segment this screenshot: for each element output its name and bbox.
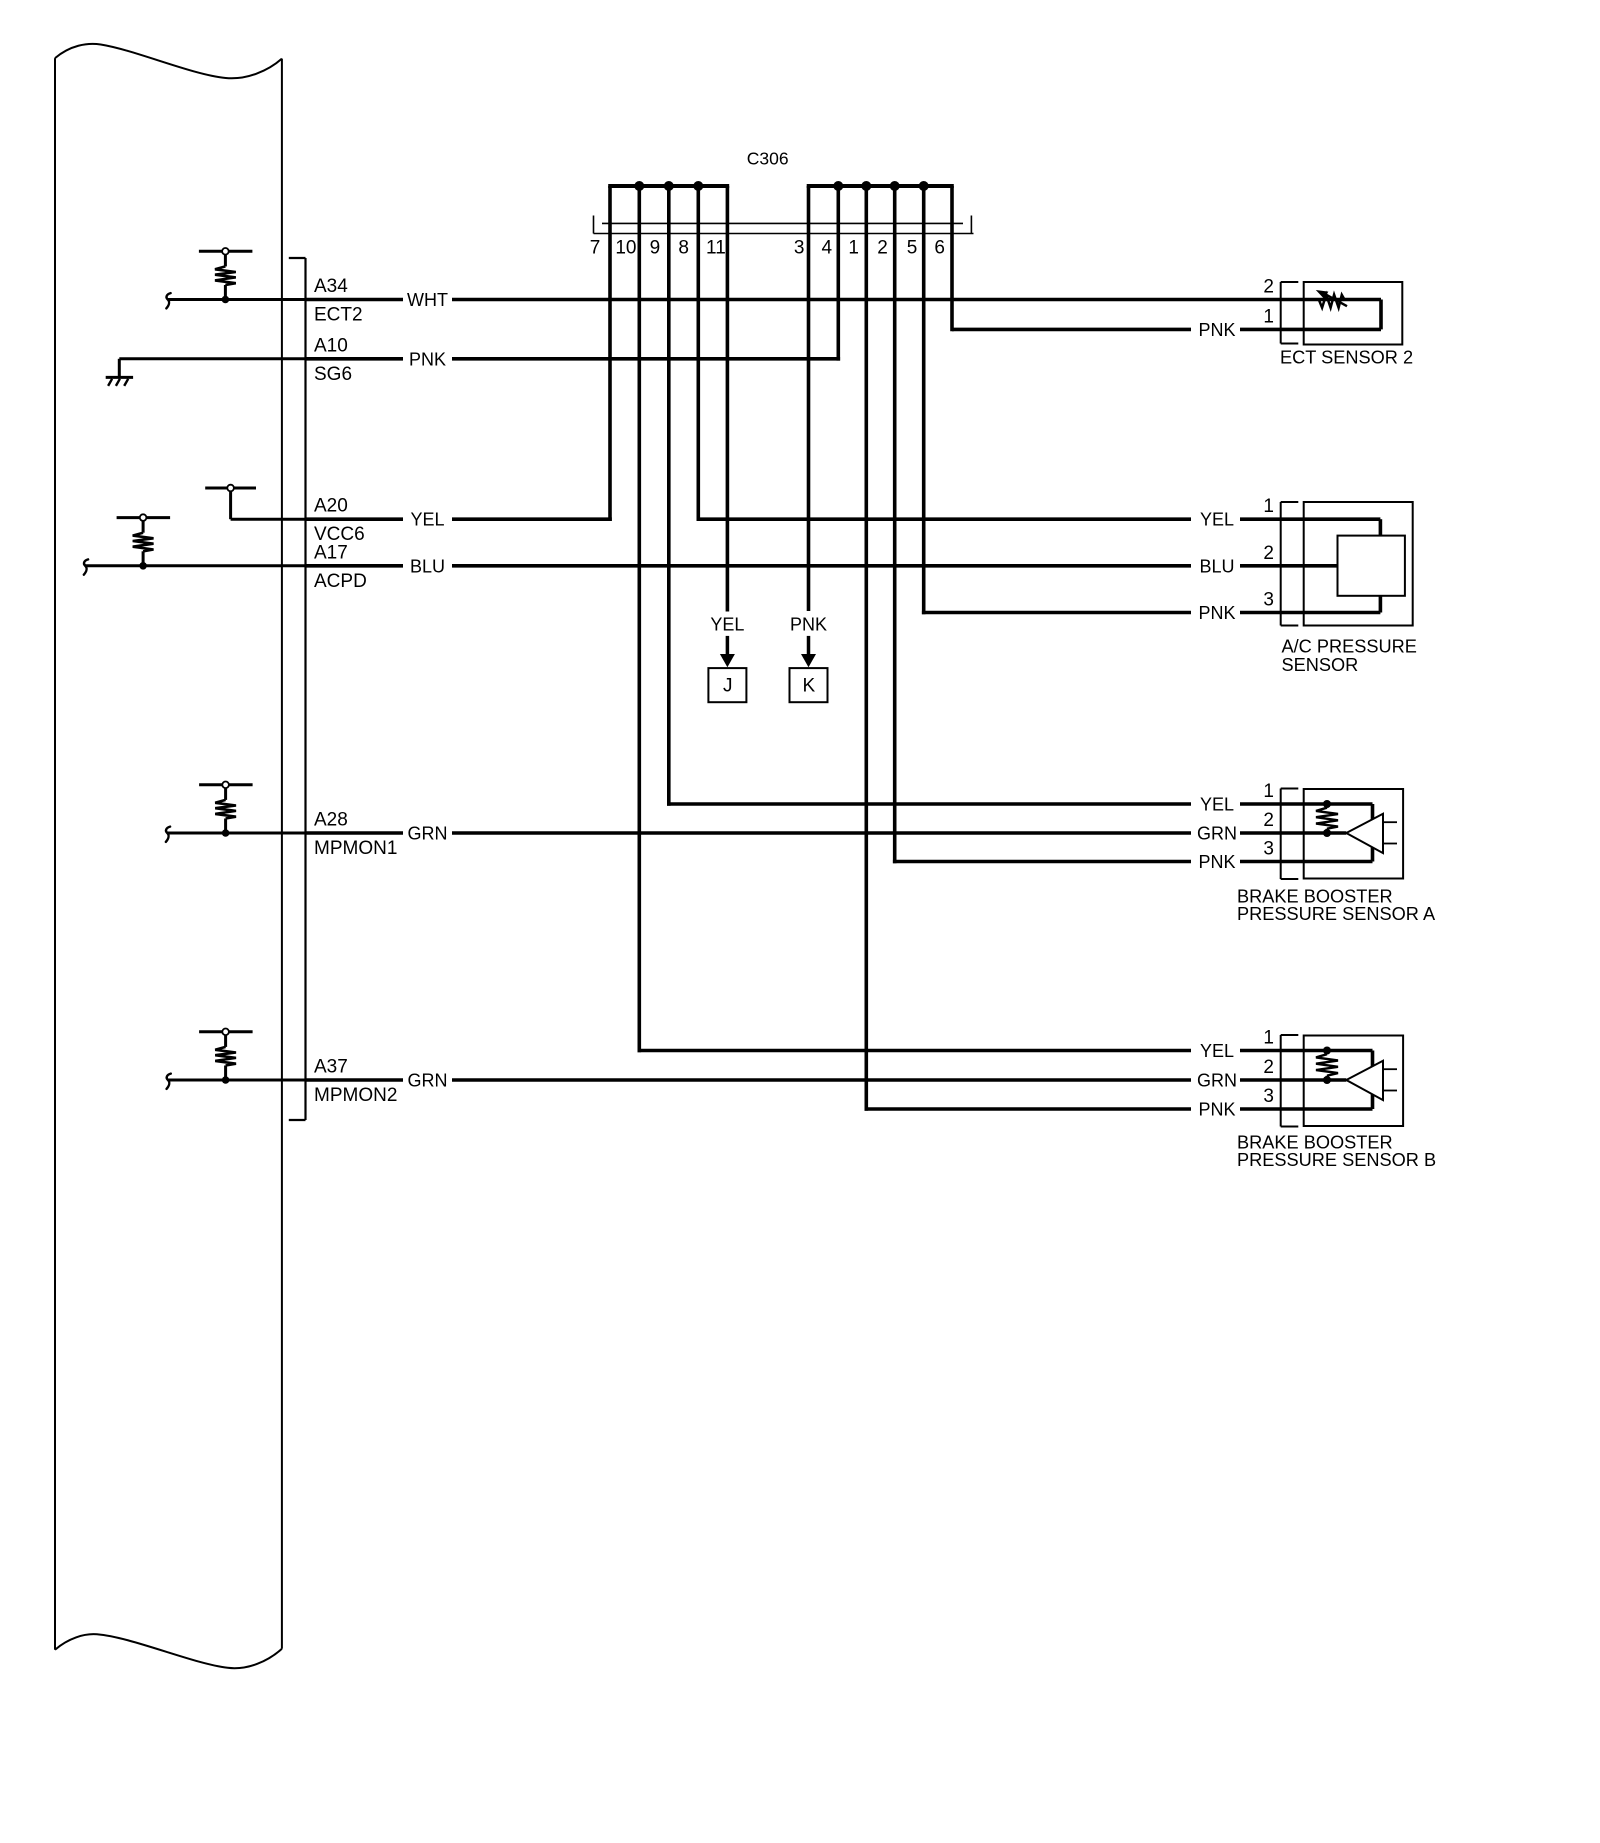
svg-text:BLU: BLU [1199, 556, 1234, 576]
svg-text:K: K [802, 676, 815, 697]
brake booster pressure sensor A box [1304, 789, 1403, 879]
junction dot (sensor A pin2) [1323, 829, 1331, 837]
svg-text:11: 11 [706, 238, 726, 259]
svg-text:YEL: YEL [1200, 795, 1234, 815]
svg-text:PRESSURE SENSOR B: PRESSURE SENSOR B [1237, 1150, 1436, 1170]
svg-text:2: 2 [1263, 1057, 1274, 1078]
resistor (A28 MPMON1 pull-up) [199, 782, 253, 837]
svg-text:PNK: PNK [1198, 852, 1235, 872]
svg-text:GRN: GRN [408, 1071, 448, 1091]
wire C306 pin1 vertical [864, 186, 868, 1111]
svg-text:GRN: GRN [1197, 824, 1237, 844]
svg-text:4: 4 [822, 238, 833, 259]
svg-text:1: 1 [1263, 1028, 1274, 1049]
resistor (A34 ECT2 pull-up) [199, 248, 253, 303]
wire color label GRN (sensor side) [1191, 1069, 1240, 1091]
svg-text:PNK: PNK [1198, 1100, 1235, 1120]
wire color label GRN [403, 1069, 452, 1091]
wire color label YEL (sensor side) [1191, 1040, 1240, 1062]
power symbol (VCC6) [205, 485, 256, 520]
svg-text:GRN: GRN [408, 824, 448, 844]
svg-text:A20: A20 [314, 496, 348, 517]
svg-text:ECT2: ECT2 [314, 305, 363, 326]
ECT sensor 2 internal link [1379, 300, 1383, 330]
svg-text:MPMON2: MPMON2 [314, 1085, 397, 1106]
resistor (sensor A internal) [1326, 804, 1329, 808]
ground G (SG6) [106, 359, 133, 386]
wire C306 pin10 vertical [637, 186, 641, 1052]
wire color label YEL (sensor side) [1191, 793, 1240, 815]
resistor (A17 ACPD pull-up) [117, 514, 171, 569]
svg-text:ACPD: ACPD [314, 571, 367, 592]
internal wire A34 [168, 298, 306, 301]
svg-text:A10: A10 [314, 335, 348, 356]
arrow to J [726, 636, 730, 655]
svg-text:2: 2 [1263, 277, 1274, 298]
connector C306 jumper bar (pins 7-11) [608, 184, 729, 188]
svg-text:A17: A17 [314, 542, 348, 563]
svg-text:2: 2 [877, 238, 888, 259]
svg-text:3: 3 [794, 238, 805, 259]
sensor B internal link [1371, 1051, 1375, 1110]
junction dot pin9 [664, 181, 674, 191]
junction dot (sensor B pin1) [1323, 1047, 1331, 1055]
junction dot pin5 [919, 181, 929, 191]
amplifier leads (sensor A) [1383, 821, 1397, 823]
svg-text:3: 3 [1263, 590, 1274, 611]
wire A34 WHT to ECT sensor 2 [306, 298, 1382, 302]
svg-text:SG6: SG6 [314, 364, 352, 385]
wire A17 BLU to A/C pressure sensor [306, 564, 1338, 568]
connector C306 jumper bar (pins 3-6) [807, 184, 954, 188]
wire C306 pin1 PNK to brake booster sensor B [865, 1107, 1373, 1111]
wire color label YEL [403, 508, 452, 530]
wire C306 pin2 PNK to brake booster sensor A [893, 860, 1373, 864]
svg-text:9: 9 [650, 238, 661, 259]
wire C306 pin9 vertical [667, 186, 671, 806]
svg-text:PNK: PNK [1198, 320, 1235, 340]
wire color label PNK (sensor side) [1191, 851, 1240, 873]
wire A20 YEL to C306 pin7 [306, 517, 612, 521]
node K [790, 668, 828, 702]
wire C306 pin5 vertical [922, 186, 926, 614]
svg-text:3: 3 [1263, 839, 1274, 860]
wire ECT sensor pin1 PNK [952, 328, 1381, 332]
node J [708, 668, 746, 702]
connector bracket brake booster pressure sensor A [1281, 789, 1299, 880]
connector C306 body bar [594, 216, 974, 234]
internal wire A28 [168, 832, 306, 835]
sensor A internal link [1371, 804, 1375, 862]
svg-text:7: 7 [590, 238, 601, 259]
wire A10 PNK to C306 pin4 [306, 357, 841, 361]
junction dot pin10 [634, 181, 644, 191]
svg-text:WHT: WHT [407, 290, 448, 310]
wire color label YEL (sensor side) [1191, 508, 1240, 530]
svg-text:10: 10 [615, 238, 636, 259]
svg-text:A37: A37 [314, 1057, 348, 1078]
arrow to K [807, 636, 811, 655]
wire color label BLU (sensor side) [1191, 555, 1240, 577]
resistor (A37 MPMON2 pull-up) [199, 1029, 253, 1084]
svg-text:YEL: YEL [1200, 510, 1234, 530]
internal continuation squiggle A17 [84, 559, 88, 574]
wire C306 pin8 vertical [696, 186, 700, 521]
svg-text:MPMON1: MPMON1 [314, 838, 397, 859]
svg-text:GRN: GRN [1197, 1071, 1237, 1091]
ECM/PCM unit band (torn-edge outline) [55, 44, 282, 1668]
internal continuation squiggle A37 [167, 1074, 171, 1089]
svg-text:1: 1 [1263, 781, 1274, 802]
svg-text:2: 2 [1263, 543, 1274, 564]
connector bracket brake booster pressure sensor B [1281, 1035, 1299, 1127]
junction dot (sensor A pin1) [1323, 800, 1331, 808]
svg-text:3: 3 [1263, 1086, 1274, 1107]
wire color label PNK (sensor side) [1191, 318, 1240, 340]
internal wire A10 [119, 357, 305, 360]
wire C306 pin2 vertical [893, 186, 897, 863]
wire A37 GRN to brake booster sensor B [306, 1078, 1347, 1082]
wire C306 pin10 YEL to brake booster sensor B [638, 1049, 1373, 1053]
wire color label WHT [403, 289, 452, 311]
amplifier triangle (sensor A) [1346, 814, 1383, 853]
wire C306 pin9 YEL to brake booster sensor A [667, 802, 1373, 806]
wire C306 pin3 vertical (to K) [807, 186, 811, 611]
wire color label GRN (sensor side) [1191, 822, 1240, 844]
wire color label GRN [403, 822, 452, 844]
wire color label BLU [403, 555, 452, 577]
wire C306 pin7 vertical [608, 186, 612, 521]
svg-text:PNK: PNK [790, 615, 827, 635]
wire color label PNK [403, 348, 452, 370]
A/C sensor internal links [1379, 519, 1383, 535]
svg-text:6: 6 [934, 238, 945, 259]
brake booster pressure sensor B box [1304, 1036, 1403, 1127]
resistor (sensor B internal) [1326, 1051, 1329, 1055]
svg-text:YEL: YEL [710, 615, 744, 635]
thermistor symbol (ECT sensor 2) [1316, 290, 1347, 308]
wire C306 pin6 vertical [950, 186, 954, 331]
junction dot (sensor B pin2) [1323, 1076, 1331, 1084]
junction dot pin8 [693, 181, 703, 191]
svg-text:1: 1 [1263, 496, 1274, 517]
svg-text:2: 2 [1263, 810, 1274, 831]
svg-text:5: 5 [907, 238, 918, 259]
svg-text:PRESSURE SENSOR A: PRESSURE SENSOR A [1237, 904, 1436, 924]
svg-text:A/C PRESSURE: A/C PRESSURE [1282, 636, 1417, 656]
svg-text:PNK: PNK [1198, 603, 1235, 623]
junction dot pin1 [861, 181, 871, 191]
svg-text:SENSOR: SENSOR [1282, 655, 1359, 675]
svg-text:YEL: YEL [410, 510, 444, 530]
svg-text:A28: A28 [314, 810, 348, 831]
wire C306 pin8 YEL to A/C pressure sensor [697, 517, 1381, 521]
internal continuation squiggle A34 [166, 293, 170, 308]
ECT sensor 2 box [1304, 282, 1403, 345]
internal wire A37 [168, 1079, 305, 1082]
svg-text:C306: C306 [747, 149, 789, 169]
svg-text:J: J [723, 676, 733, 697]
connector bracket ECT sensor 2 [1281, 282, 1299, 344]
svg-text:ECT SENSOR 2: ECT SENSOR 2 [1280, 348, 1413, 368]
amplifier triangle (sensor B) [1346, 1061, 1383, 1100]
svg-text:8: 8 [678, 238, 689, 259]
wire color label PNK (sensor side) [1191, 1098, 1240, 1120]
svg-text:1: 1 [848, 238, 859, 259]
svg-text:1: 1 [1263, 306, 1274, 327]
junction dot pin2 [890, 181, 900, 191]
internal wire A17 [86, 564, 306, 567]
wire A28 GRN to brake booster sensor A [306, 831, 1347, 835]
svg-text:BLU: BLU [410, 556, 445, 576]
internal continuation squiggle A28 [166, 827, 170, 842]
svg-text:YEL: YEL [1200, 1041, 1234, 1061]
wire color label PNK (sensor side) [1191, 602, 1240, 624]
junction dot pin4 [833, 181, 843, 191]
ECM connector bracket [289, 258, 306, 1120]
connector bracket A/C pressure sensor [1281, 502, 1299, 626]
A/C pressure sensor box [1304, 502, 1413, 626]
amplifier leads (sensor B) [1383, 1068, 1397, 1070]
wire C306 pin5 PNK to A/C pressure sensor [922, 611, 1381, 615]
A/C sensor inner element box [1338, 536, 1405, 596]
wire C306 pin4 vertical [836, 186, 840, 361]
wire C306 pin11 vertical (to J) [726, 186, 730, 612]
internal wire A20 [231, 518, 306, 521]
svg-text:A34: A34 [314, 276, 348, 297]
svg-text:PNK: PNK [409, 349, 446, 369]
